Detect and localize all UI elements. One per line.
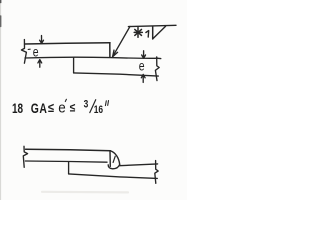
left dimension upper arrow [40,36,44,44]
weld symbol fillet triangle hypotenuse [153,26,166,39]
weld symbol leader arrowhead [113,50,118,57]
scan artifact left edge dark dash [0,16,2,27]
bottom lower plate right break line [155,161,158,184]
lower plate top line overshoot tick [157,57,161,59]
lower plate left edge [73,58,75,73]
stray pencil mark left of e [28,48,30,50]
lower plate bottom line [74,73,159,76]
CAPTION TEXT [12,98,103,116]
right dimension lower arrow [141,74,145,82]
caption inch marks [105,101,108,106]
lower plate right break line [155,57,159,81]
weld symbol footnote digit 1 [146,31,149,37]
caption fraction slash [90,100,96,113]
svg-text:18: 18 [12,100,23,116]
scan artifact left edge line [0,0,2,200]
svg-text:GA: GA [31,100,48,116]
weld symbol asterisk footnote mark [134,28,142,38]
bottom upper plate right edge [109,151,111,167]
bottom lower plate top line right of weld [120,164,158,166]
scan artifact bottom smudge [42,191,128,194]
weld bead outer face [111,151,120,164]
svg-text:e: e [33,44,39,60]
svg-text:e: e [58,100,66,117]
svg-text:16: 16 [94,104,104,117]
weld symbol fillet triangle vertical leg [152,27,154,39]
upper plate right edge [109,43,111,57]
bottom upper plate left break line [23,146,27,167]
upper plate left break line [21,40,26,64]
weld symbol reference line [128,25,176,26]
scan artifact left edge dark dash top [0,0,2,3]
svg-text:≤: ≤ [70,102,76,115]
caption e tick [65,99,66,101]
weld bead internal hatch [113,156,115,162]
svg-text:≤: ≤ [48,100,54,115]
weld bead rounded foot [108,164,120,168]
svg-text:3: 3 [84,98,89,111]
bottom lower plate bottom line [69,174,158,179]
bottom upper plate top line [26,149,111,150]
right dimension upper arrow [142,51,146,59]
upper plate bottom line joining lower plate top line [25,57,158,58]
weld symbol leader line [113,26,130,56]
bottom upper plate bottom line [25,161,107,162]
upper plate top line [25,43,110,44]
left dimension lower arrow [38,60,42,68]
svg-text:e: e [139,58,145,74]
bottom lower plate left edge [68,162,70,174]
